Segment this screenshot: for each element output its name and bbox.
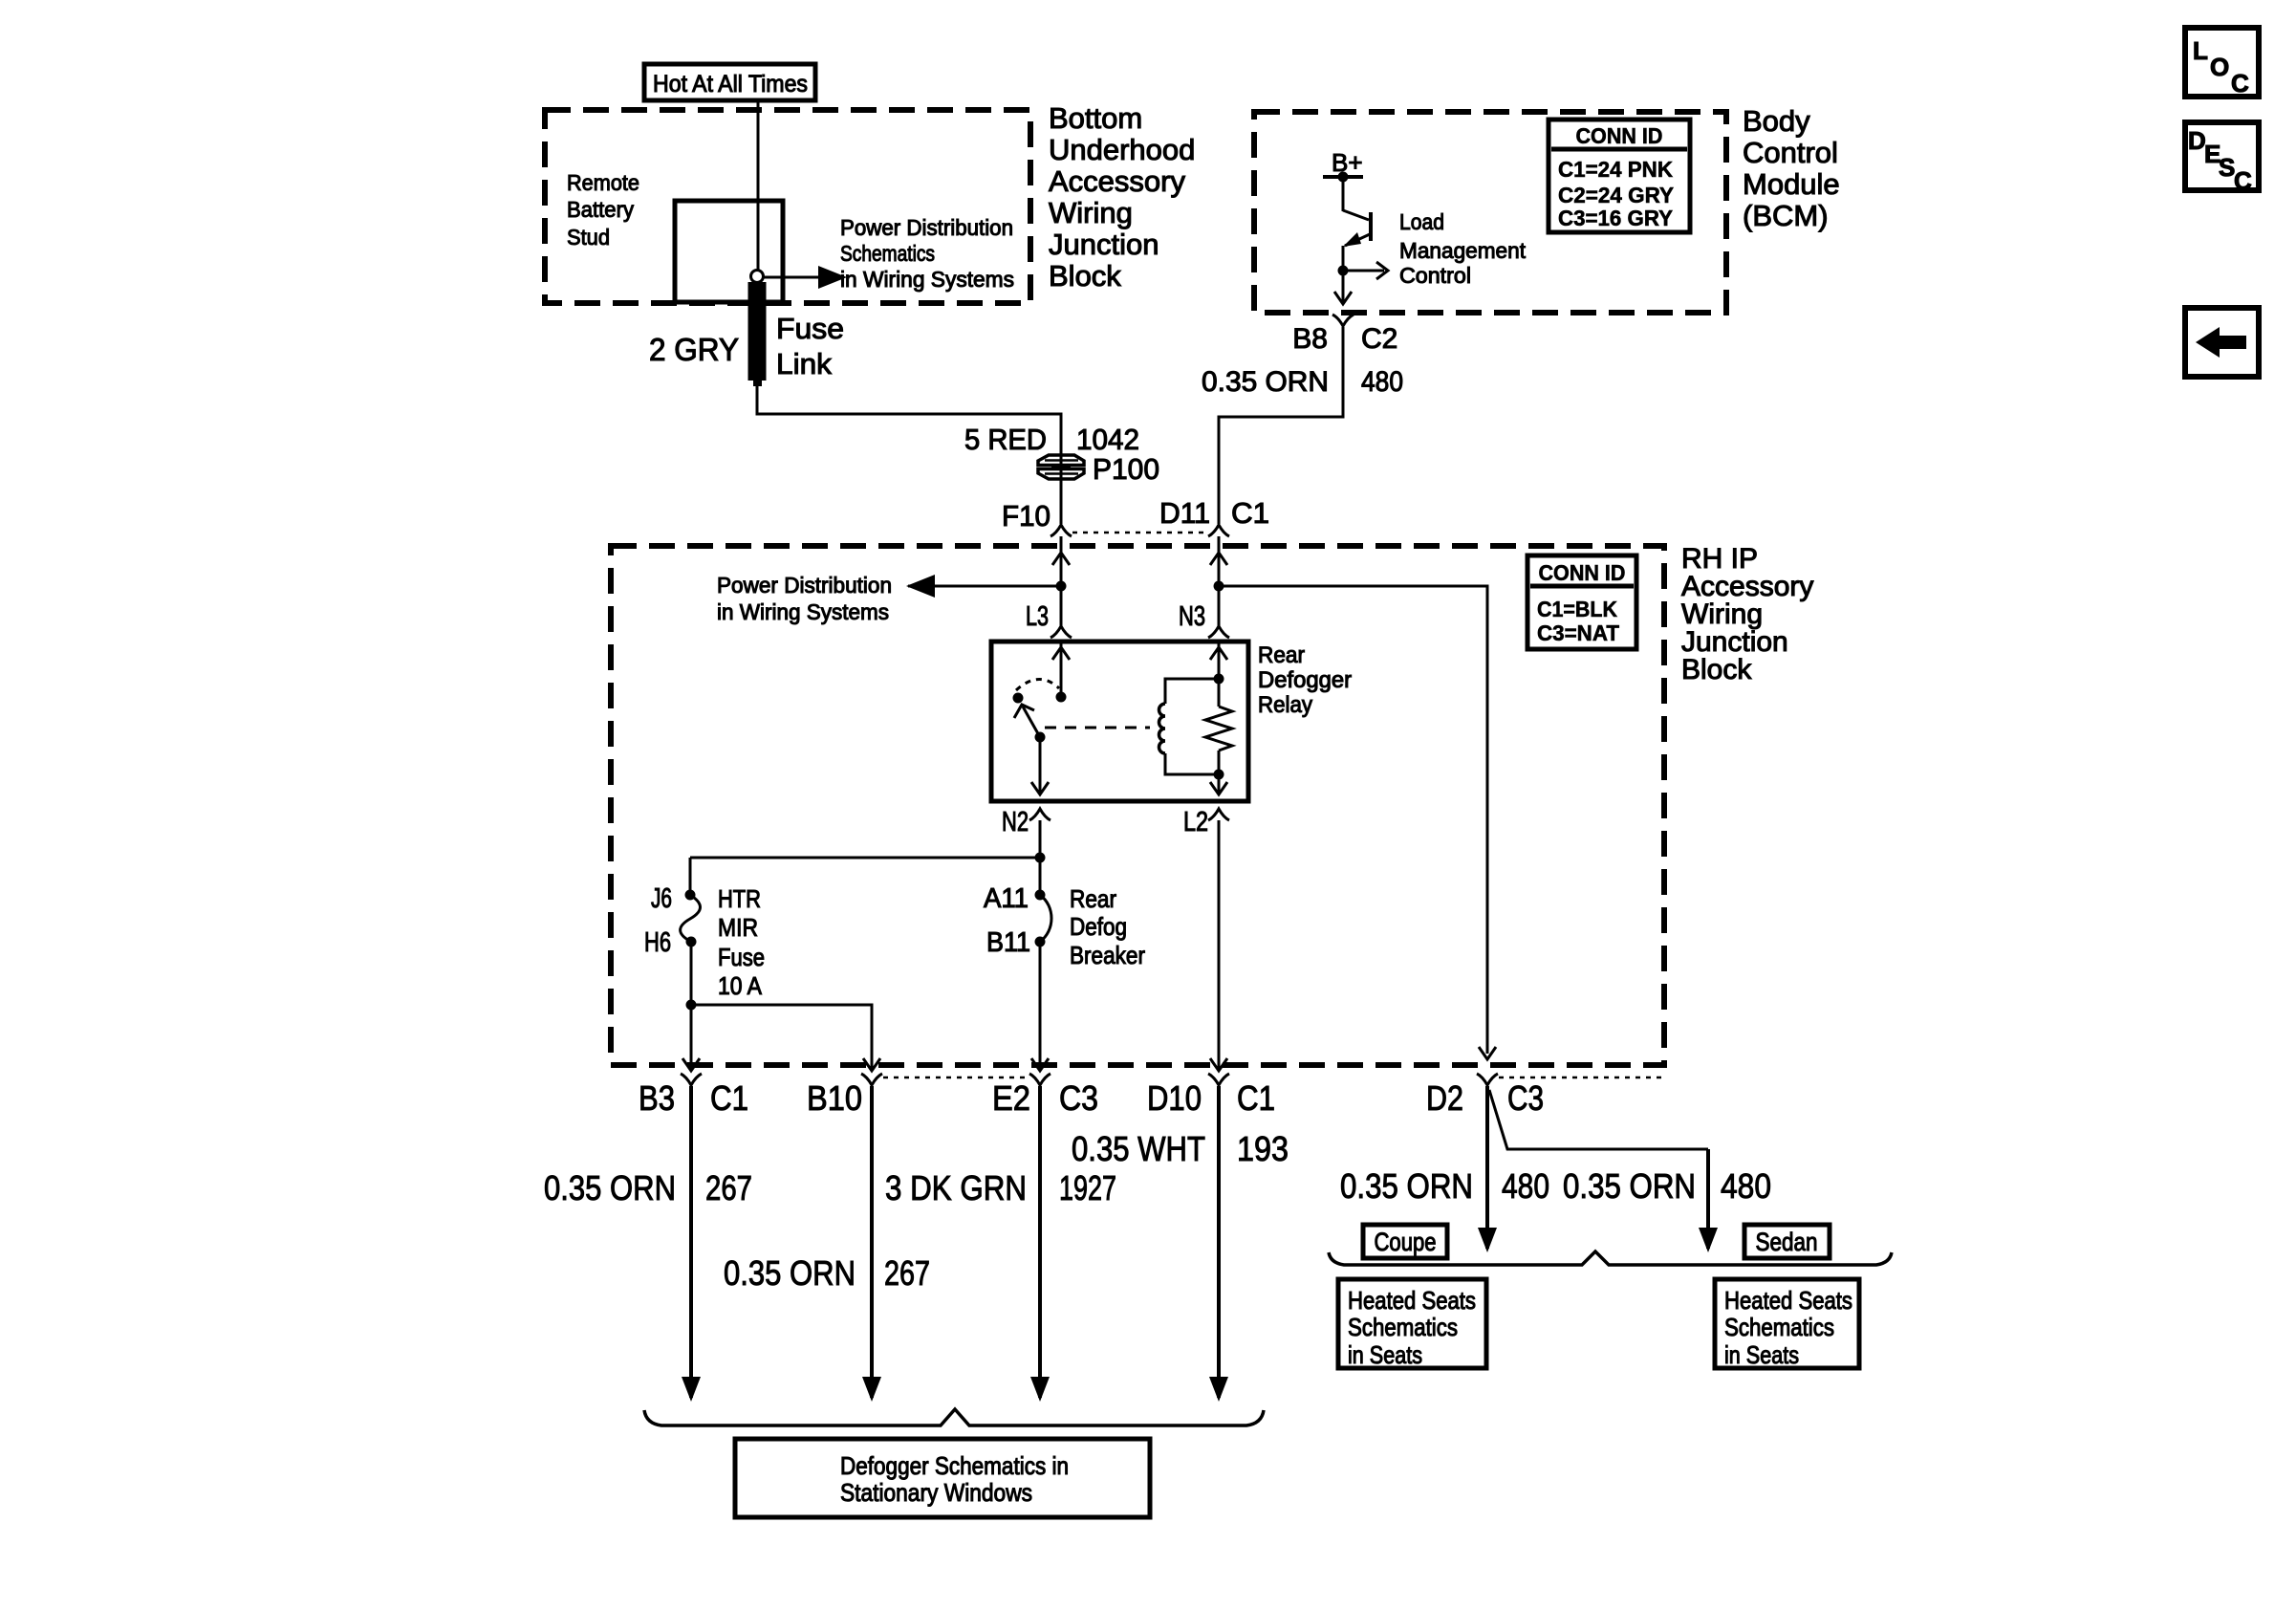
svg-text:Defogger Schematics in: Defogger Schematics in bbox=[840, 1451, 1069, 1480]
node: Sedan tag box bbox=[1744, 1225, 1830, 1258]
svg-text:N3: N3 bbox=[1179, 601, 1205, 632]
node: H6 terminal dot bbox=[686, 937, 697, 947]
wire: D10 defogger feed bbox=[1209, 1086, 1228, 1402]
label: Load Management Control bbox=[1399, 209, 1526, 288]
connector: L2 relay terminal bbox=[1183, 807, 1229, 838]
label: 5 RED | 1042 bbox=[964, 423, 1139, 456]
svg-text:L2: L2 bbox=[1183, 807, 1208, 838]
component: Rear Defogger Relay box bbox=[991, 642, 1248, 801]
component: fuse link (thick bar) bbox=[748, 282, 767, 386]
svg-text:Remote: Remote bbox=[567, 170, 639, 195]
transistor: load management driver bbox=[1343, 177, 1371, 271]
svg-text:Bottom: Bottom bbox=[1049, 101, 1142, 135]
label: 0.35 ORN | 480 (sedan) bbox=[1563, 1166, 1771, 1206]
svg-text:C1=24 PNK: C1=24 PNK bbox=[1558, 157, 1673, 182]
table: CONN ID (RH IP junction block) bbox=[1527, 555, 1636, 649]
svg-text:Control: Control bbox=[1399, 263, 1471, 288]
node: L3 feed junction dot bbox=[1056, 581, 1067, 592]
component: remote battery stud box bbox=[675, 201, 783, 302]
connector E2 / C3 bbox=[992, 1074, 1098, 1118]
svg-text:Battery: Battery bbox=[567, 197, 634, 222]
wire: BCM output to B8 with down chevron bbox=[1334, 271, 1352, 304]
svg-text:Junction: Junction bbox=[1049, 228, 1159, 261]
node: Heated Seats Schematics in Seats box (sedan) bbox=[1715, 1279, 1859, 1369]
svg-text:Control: Control bbox=[1743, 136, 1838, 169]
connector: N2 relay terminal bbox=[1002, 807, 1051, 838]
svg-text:480: 480 bbox=[1502, 1166, 1549, 1206]
svg-text:D11: D11 bbox=[1159, 496, 1210, 530]
node: control junction dot bbox=[1338, 266, 1349, 276]
svg-text:in Seats: in Seats bbox=[1348, 1340, 1422, 1369]
wire: 0.35 ORN 480 from B8 to D11 bbox=[1219, 327, 1343, 524]
connector: L3 relay terminal bbox=[1026, 601, 1072, 638]
node: B11 terminal dot bbox=[1035, 937, 1046, 947]
svg-text:Module: Module bbox=[1743, 167, 1840, 201]
wire: relay coil branch top bbox=[1165, 679, 1219, 704]
svg-text:A11: A11 bbox=[984, 883, 1029, 914]
svg-text:Wiring: Wiring bbox=[1049, 196, 1133, 229]
svg-text:in Seats: in Seats bbox=[1724, 1340, 1799, 1369]
node: back arrow sidebar button bbox=[2185, 308, 2259, 377]
arrow: load management control tap bbox=[1343, 262, 1388, 279]
svg-text:Coupe: Coupe bbox=[1375, 1228, 1437, 1256]
label: HTR MIR Fuse 10 A bbox=[718, 884, 765, 1000]
svg-text:Schematics: Schematics bbox=[1724, 1313, 1834, 1341]
svg-text:Block: Block bbox=[1049, 259, 1121, 293]
node: coil taps on N3 line bbox=[1214, 674, 1224, 685]
label: RH IP Accessory Wiring Junction Block bbox=[1681, 543, 1813, 685]
wire: 5 RED 1042 from fuse link to junction block F10 bbox=[757, 386, 1061, 524]
svg-text:C3=NAT: C3=NAT bbox=[1537, 620, 1619, 645]
wire: B3 defogger feed bbox=[682, 1086, 701, 1402]
wire: tee across to HTR MIR fuse bbox=[690, 857, 1040, 859]
svg-text:C3: C3 bbox=[1507, 1078, 1544, 1118]
connector B3 / C1 bbox=[639, 1074, 748, 1118]
wire: fine dashed connector face line F10-D11 bbox=[1072, 532, 1207, 534]
svg-text:C2: C2 bbox=[1361, 323, 1397, 355]
wire: B11 down to E2 exit with chevron bbox=[1031, 942, 1049, 1071]
svg-text:J6: J6 bbox=[651, 883, 672, 914]
svg-text:Rear: Rear bbox=[1070, 884, 1116, 913]
wire: dashed mechanical link switch to coil bbox=[1045, 727, 1150, 729]
connector B10 bbox=[807, 1074, 882, 1118]
label: Rear Defogger Relay bbox=[1258, 642, 1352, 718]
svg-text:L3: L3 bbox=[1026, 601, 1049, 632]
svg-text:Defog: Defog bbox=[1070, 912, 1127, 941]
svg-text:P100: P100 bbox=[1093, 452, 1159, 486]
svg-text:0.35 WHT: 0.35 WHT bbox=[1072, 1129, 1205, 1168]
svg-text:Hot At All Times: Hot At All Times bbox=[653, 71, 808, 98]
arrow: power distribution tap to the left bbox=[906, 575, 1061, 598]
svg-text:C3: C3 bbox=[1059, 1078, 1098, 1118]
svg-text:B8: B8 bbox=[1292, 323, 1328, 355]
label: Power Distribution Schematics in Wiring Systems bbox=[840, 215, 1014, 292]
svg-text:480: 480 bbox=[1721, 1166, 1771, 1206]
svg-text:D10: D10 bbox=[1147, 1078, 1202, 1118]
node: J6 terminal dot bbox=[685, 890, 696, 901]
node: Hot At All Times power tag bbox=[644, 64, 815, 100]
component: relay suppression resistor bbox=[1205, 707, 1232, 751]
connector D10 / C1 bbox=[1147, 1074, 1275, 1118]
svg-text:Load: Load bbox=[1399, 209, 1444, 234]
svg-text:L: L bbox=[2193, 36, 2208, 65]
svg-text:Stud: Stud bbox=[567, 225, 610, 250]
label: A11 / B11 bbox=[984, 883, 1030, 958]
label: Power Distribution in Wiring Systems bbox=[717, 573, 892, 624]
node: A11 terminal dot bbox=[1035, 890, 1046, 901]
label: Body Control Module (BCM) bbox=[1743, 104, 1840, 232]
label: Fuse Link bbox=[776, 312, 844, 381]
svg-text:S: S bbox=[2219, 153, 2235, 182]
wire: N3 node across to D2 drop bbox=[1219, 586, 1487, 1054]
label: Bottom Underhood Accessory Wiring Junction Block bbox=[1049, 101, 1195, 293]
svg-text:0.35 ORN: 0.35 ORN bbox=[1202, 366, 1329, 398]
wire: fine dashed connector face line right of D2 bbox=[1499, 1077, 1663, 1079]
dashed box: Bottom Underhood Accessory Wiring Junction Block bbox=[545, 110, 1030, 303]
label: 0.35 WHT | 193 (D10) bbox=[1072, 1129, 1289, 1168]
node: Heated Seats Schematics in Seats box (coupe) bbox=[1338, 1279, 1486, 1369]
svg-text:0.35 ORN: 0.35 ORN bbox=[544, 1168, 676, 1207]
svg-text:3 DK GRN: 3 DK GRN bbox=[885, 1168, 1027, 1207]
brace: defogger group bbox=[644, 1409, 1264, 1425]
label: 0.35 ORN | 480 bbox=[1202, 366, 1403, 398]
svg-text:E2: E2 bbox=[992, 1078, 1030, 1118]
svg-text:1927: 1927 bbox=[1059, 1168, 1116, 1207]
node: Coupe tag box bbox=[1363, 1225, 1447, 1258]
wire: branch to B10 exit bbox=[691, 1005, 880, 1071]
wire: L2 down to D10 exit with chevron bbox=[1210, 820, 1227, 1071]
component: HTR MIR fuse element bbox=[681, 895, 701, 942]
connector: P100 splice bbox=[1038, 452, 1159, 486]
label: Rear Defog Breaker bbox=[1070, 884, 1145, 969]
svg-text:C1: C1 bbox=[1231, 496, 1269, 530]
wire: relay switch feed from L3 bbox=[1052, 642, 1070, 697]
svg-text:Power Distribution: Power Distribution bbox=[717, 573, 892, 598]
component: relay coil bbox=[1159, 704, 1166, 753]
svg-text:B3: B3 bbox=[639, 1078, 675, 1118]
svg-text:HTR: HTR bbox=[718, 884, 761, 913]
svg-text:Accessory: Accessory bbox=[1049, 164, 1185, 198]
wire: switch output to N2 with down chevron bbox=[1031, 737, 1049, 794]
connector D2 / C3 bbox=[1426, 1074, 1544, 1118]
brace: heated seats group bbox=[1329, 1251, 1892, 1265]
svg-text:480: 480 bbox=[1361, 366, 1403, 398]
svg-text:Management: Management bbox=[1399, 238, 1526, 263]
svg-text:Heated Seats: Heated Seats bbox=[1724, 1286, 1852, 1315]
node: N3 feed junction dot bbox=[1214, 581, 1224, 592]
svg-text:193: 193 bbox=[1237, 1129, 1289, 1168]
svg-text:MIR: MIR bbox=[718, 913, 758, 942]
svg-text:0.35 ORN: 0.35 ORN bbox=[1563, 1166, 1696, 1206]
wire: B3 exit with down chevron bbox=[682, 1005, 700, 1071]
node: LOC sidebar button bbox=[2185, 28, 2259, 98]
svg-text:Schematics: Schematics bbox=[840, 241, 935, 266]
wire: resistor to L2 with down chevron bbox=[1210, 751, 1227, 794]
label: 0.35 ORN | 267 (B10) bbox=[724, 1253, 930, 1293]
svg-text:Rear: Rear bbox=[1258, 642, 1305, 668]
svg-text:0.35 ORN: 0.35 ORN bbox=[724, 1253, 856, 1293]
svg-text:Block: Block bbox=[1681, 654, 1752, 685]
svg-text:Power Distribution: Power Distribution bbox=[840, 215, 1013, 240]
wire: sedan feed down bbox=[1699, 1149, 1718, 1252]
svg-text:10 A: 10 A bbox=[718, 971, 763, 1000]
svg-text:D2: D2 bbox=[1426, 1078, 1463, 1118]
svg-text:C: C bbox=[2231, 69, 2249, 98]
svg-text:CONN ID: CONN ID bbox=[1539, 560, 1626, 585]
svg-text:C3=16 GRY: C3=16 GRY bbox=[1558, 206, 1673, 230]
svg-text:Stationary Windows: Stationary Windows bbox=[840, 1478, 1032, 1507]
wire: B10 defogger feed bbox=[862, 1086, 881, 1402]
svg-text:in Wiring Systems: in Wiring Systems bbox=[717, 599, 889, 624]
wire: H6 down to B3/B10 tee bbox=[690, 942, 693, 1005]
wire: F10 entry with up chevron into L3 node bbox=[1052, 536, 1070, 626]
connector: N3 relay terminal bbox=[1179, 601, 1229, 638]
svg-text:2 GRY: 2 GRY bbox=[649, 332, 739, 367]
wire: fine dashed connector face line B10-E2 bbox=[883, 1077, 1029, 1079]
svg-text:CONN ID: CONN ID bbox=[1576, 123, 1663, 148]
svg-text:H6: H6 bbox=[644, 927, 671, 958]
arrow: to Power Distribution Schematics bbox=[764, 266, 847, 289]
wire: dashed travel arc of switch bbox=[1016, 679, 1059, 690]
node: stud terminal circle bbox=[751, 271, 764, 283]
wire: N3 into relay with up chevron bbox=[1210, 642, 1227, 707]
svg-text:Sedan: Sedan bbox=[1756, 1228, 1818, 1256]
svg-text:O: O bbox=[2210, 53, 2229, 81]
label: 0.35 ORN | 480 (coupe) bbox=[1340, 1166, 1549, 1206]
wire: feed from Hot At All Times down to battery stud bbox=[757, 100, 760, 271]
wire: sedan branch from D2 bbox=[1489, 1090, 1708, 1149]
svg-text:B10: B10 bbox=[807, 1078, 862, 1118]
wire: D11 entry with up chevron into N3 node bbox=[1210, 536, 1227, 626]
svg-text:D: D bbox=[2188, 126, 2206, 155]
svg-text:C1=BLK: C1=BLK bbox=[1537, 597, 1617, 621]
svg-text:F10: F10 bbox=[1002, 499, 1051, 533]
node: armature pivot dot bbox=[1035, 732, 1046, 743]
svg-text:Fuse: Fuse bbox=[718, 943, 765, 971]
label: J6 / H6 bbox=[644, 883, 672, 958]
node: Defogger Schematics in Stationary Windows box bbox=[735, 1439, 1150, 1517]
wire: D2 coupe feed down bbox=[1478, 1086, 1497, 1252]
svg-text:267: 267 bbox=[884, 1253, 930, 1293]
wire: relay coil branch bottom bbox=[1165, 753, 1219, 774]
label: 0.35 ORN | 267 (B3) bbox=[544, 1168, 752, 1207]
connector F10 at junction block bbox=[1002, 499, 1072, 536]
wire: E2 defogger feed bbox=[1030, 1086, 1050, 1402]
dashed box: RH IP Accessory Wiring Junction Block bbox=[611, 546, 1664, 1065]
connector D11 / C1 bbox=[1159, 496, 1269, 536]
label: 3 DK GRN | 1927 (E2) bbox=[885, 1168, 1116, 1207]
wire: D2 exit with chevron bbox=[1479, 1047, 1496, 1059]
node: B3/B10 tee dot bbox=[686, 1000, 697, 1011]
node: relay contact dots bbox=[1056, 692, 1067, 703]
svg-text:0.35 ORN: 0.35 ORN bbox=[1340, 1166, 1473, 1206]
svg-text:C: C bbox=[2234, 166, 2252, 195]
svg-text:(BCM): (BCM) bbox=[1743, 199, 1829, 232]
node: DESC sidebar button bbox=[2185, 122, 2259, 195]
svg-text:N2: N2 bbox=[1002, 807, 1029, 838]
label: Remote Battery Stud bbox=[567, 170, 639, 250]
dashed box: Body Control Module (BCM) bbox=[1254, 112, 1726, 313]
svg-text:Link: Link bbox=[776, 347, 833, 381]
svg-text:Fuse: Fuse bbox=[776, 312, 844, 345]
svg-text:Body: Body bbox=[1743, 104, 1810, 138]
svg-text:Defogger: Defogger bbox=[1258, 667, 1352, 693]
svg-text:C1: C1 bbox=[1237, 1078, 1275, 1118]
component: relay switch armature bbox=[1014, 705, 1040, 737]
svg-text:1042: 1042 bbox=[1076, 423, 1139, 456]
svg-text:C1: C1 bbox=[710, 1078, 748, 1118]
component: rear defog breaker element bbox=[1040, 895, 1051, 942]
node: B+ supply bar bbox=[1323, 175, 1363, 179]
svg-text:Heated Seats: Heated Seats bbox=[1348, 1286, 1476, 1315]
svg-text:B+: B+ bbox=[1332, 148, 1363, 177]
svg-text:Schematics: Schematics bbox=[1348, 1313, 1458, 1341]
svg-text:B11: B11 bbox=[986, 927, 1030, 958]
connector B8 / C2 bbox=[1292, 315, 1397, 355]
svg-text:Underhood: Underhood bbox=[1049, 133, 1195, 166]
svg-text:Breaker: Breaker bbox=[1070, 941, 1145, 969]
svg-text:in Wiring Systems: in Wiring Systems bbox=[840, 267, 1014, 292]
node: tee junction dot bbox=[1035, 853, 1046, 863]
table: CONN ID (BCM) bbox=[1549, 120, 1690, 232]
svg-text:267: 267 bbox=[705, 1168, 752, 1207]
svg-text:Relay: Relay bbox=[1258, 692, 1312, 718]
wire: drop to J6 bbox=[689, 858, 692, 895]
svg-text:5 RED: 5 RED bbox=[964, 423, 1047, 456]
wire: N2 down to fuse/breaker tee bbox=[1039, 820, 1042, 895]
svg-text:C2=24 GRY: C2=24 GRY bbox=[1558, 183, 1674, 207]
